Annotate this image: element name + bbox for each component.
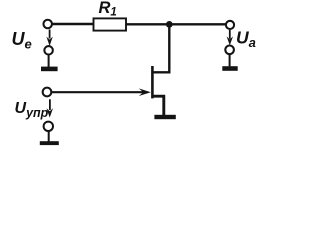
transistor VT source lead bbox=[152, 96, 163, 115]
ground (output port) bbox=[222, 66, 237, 71]
terminal Uupr control circle bbox=[43, 88, 52, 97]
ground (transistor source) bbox=[154, 115, 175, 119]
arrow Ua voltage bbox=[227, 30, 233, 46]
node junction (drain tap) bbox=[166, 21, 173, 28]
terminal Uupr ground-side circle bbox=[44, 122, 53, 131]
ground (control port) bbox=[40, 141, 59, 145]
wire Ue ground stem bbox=[48, 55, 50, 68]
ground (input port) bbox=[41, 67, 58, 72]
wire gate from Uupr bbox=[52, 91, 148, 93]
wire Uupr ground stem bbox=[48, 131, 50, 142]
transistor VT drain lead bbox=[152, 25, 169, 73]
transistor VT channel bar bbox=[151, 66, 154, 98]
wire Ua ground stem bbox=[229, 54, 231, 66]
arrow Ue voltage bbox=[46, 30, 52, 47]
arrow Uupr voltage bbox=[47, 99, 54, 117]
terminal Ua ground-side circle bbox=[225, 46, 234, 55]
terminal Ua output circle bbox=[226, 21, 234, 29]
transistor VT gate arrowhead bbox=[139, 88, 151, 96]
terminal Ue ground-side circle bbox=[44, 46, 53, 55]
wire R1 to Ua terminal bbox=[126, 23, 226, 25]
resistor R1 bbox=[94, 18, 127, 30]
terminal Ue input circle bbox=[43, 20, 52, 29]
wire Ue to R1 bbox=[52, 23, 94, 25]
